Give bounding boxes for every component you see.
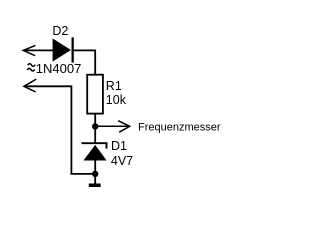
- ground: [89, 184, 101, 188]
- svg-text:R1: R1: [106, 79, 122, 93]
- svg-text:D1: D1: [111, 139, 127, 153]
- node: junction dot at ground: [92, 171, 98, 177]
- diode D2: [53, 37, 74, 62]
- wire: D1 anode to ground junction: [94, 161, 96, 184]
- AC symbol ~: [27, 64, 35, 71]
- node A: open arrow AC input top: [23, 45, 35, 55]
- svg-text:4V7: 4V7: [111, 154, 133, 168]
- svg-text:1N4007: 1N4007: [36, 61, 82, 76]
- wire: output to Frequenzmesser: [95, 125, 129, 127]
- svg-text:Frequenzmesser: Frequenzmesser: [138, 122, 221, 134]
- resistor R1: [87, 75, 103, 114]
- wire: D2 cathode to corner and down to R1: [74, 50, 95, 74]
- svg-text:10k: 10k: [106, 93, 127, 107]
- wire: AC input top lead to D2 anode: [23, 49, 53, 51]
- wire: R1 bottom to D1 cathode: [94, 114, 96, 144]
- node: junction dot at R1/D1/output: [92, 123, 98, 129]
- node: open arrow output: [118, 121, 129, 133]
- node: open arrow AC input bottom: [24, 79, 36, 92]
- zener diode D1: [82, 143, 107, 160]
- svg-text:D2: D2: [52, 24, 68, 38]
- wire: return branch from ground junction to AC input bottom: [24, 86, 95, 174]
